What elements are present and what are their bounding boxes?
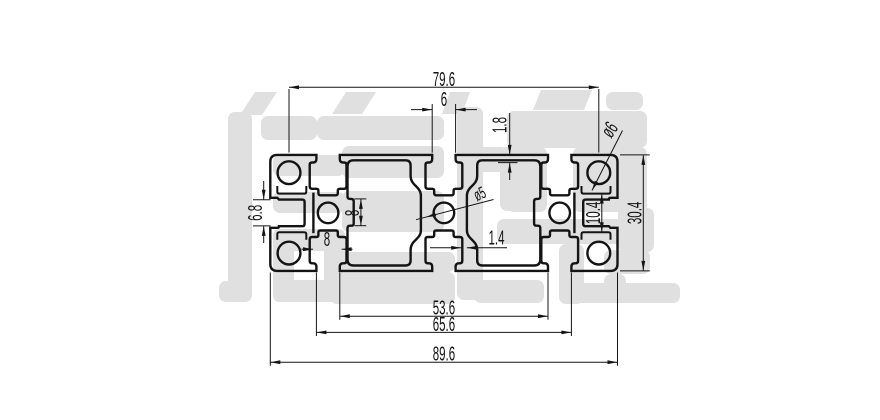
dimension 10.4 extension lines	[592, 193, 610, 195]
corner hole top-left	[278, 161, 301, 184]
bottom-right web slit	[582, 232, 611, 240]
dimension 6.8	[263, 181, 265, 200]
dimension 53.6	[340, 315, 548, 317]
svg-text:79.6: 79.6	[433, 69, 455, 91]
dimension 79.6	[289, 86, 599, 88]
dimension 53.6 extension lines	[339, 273, 341, 320]
dimension 8 horizontal	[302, 248, 314, 250]
svg-text:89.6: 89.6	[433, 343, 455, 365]
corner hole bottom-left	[278, 242, 301, 265]
top-left web slit	[277, 186, 306, 194]
right web wall	[573, 193, 575, 234]
dimension 30.4	[642, 155, 644, 271]
dimension 6	[411, 109, 432, 111]
profile outer outline	[270, 155, 617, 271]
dimension 89.6	[270, 361, 617, 363]
dia 5 leader	[416, 200, 494, 220]
svg-text:6: 6	[441, 89, 447, 111]
left cavity	[348, 160, 421, 265]
top-right web slit	[582, 186, 611, 194]
dimension 1.8 extension line	[498, 162, 518, 164]
dimension 89.6 extension lines	[269, 273, 271, 366]
svg-text:30.4: 30.4	[624, 202, 646, 224]
dimension 1.8	[509, 113, 511, 155]
bottom-left web slit	[277, 232, 306, 240]
dimension 30.4 extension lines	[620, 154, 650, 156]
dimension 65.6 extension lines	[315, 273, 317, 337]
dimension 6.8 extension lines	[253, 199, 271, 201]
svg-text:6.8: 6.8	[245, 205, 267, 221]
screw hole center	[434, 203, 455, 224]
svg-text:8: 8	[342, 210, 364, 216]
corner hole bottom-right	[587, 242, 610, 265]
screw hole left	[318, 203, 339, 224]
right cavity	[467, 160, 540, 265]
svg-text:1.4: 1.4	[489, 227, 505, 249]
screw hole right	[549, 203, 570, 224]
corner hole top-right	[587, 161, 610, 184]
dimension 65.6	[316, 331, 571, 333]
dimension 8 vertical extension lines	[355, 198, 367, 200]
dimension 8 vertical	[360, 199, 362, 226]
svg-text:1.8: 1.8	[489, 117, 511, 133]
dimension 6 extension lines	[431, 104, 433, 153]
svg-text:65.6: 65.6	[433, 314, 455, 336]
svg-text:8: 8	[324, 229, 330, 251]
watermark brand text	[219, 90, 680, 304]
dia 6 leader	[592, 131, 623, 191]
dimension 79.6 extension lines	[288, 89, 290, 153]
svg-text:10.4: 10.4	[583, 202, 605, 224]
dimension 10.4	[601, 194, 603, 233]
left web wall	[312, 193, 314, 234]
dimension 1.4	[430, 247, 461, 249]
